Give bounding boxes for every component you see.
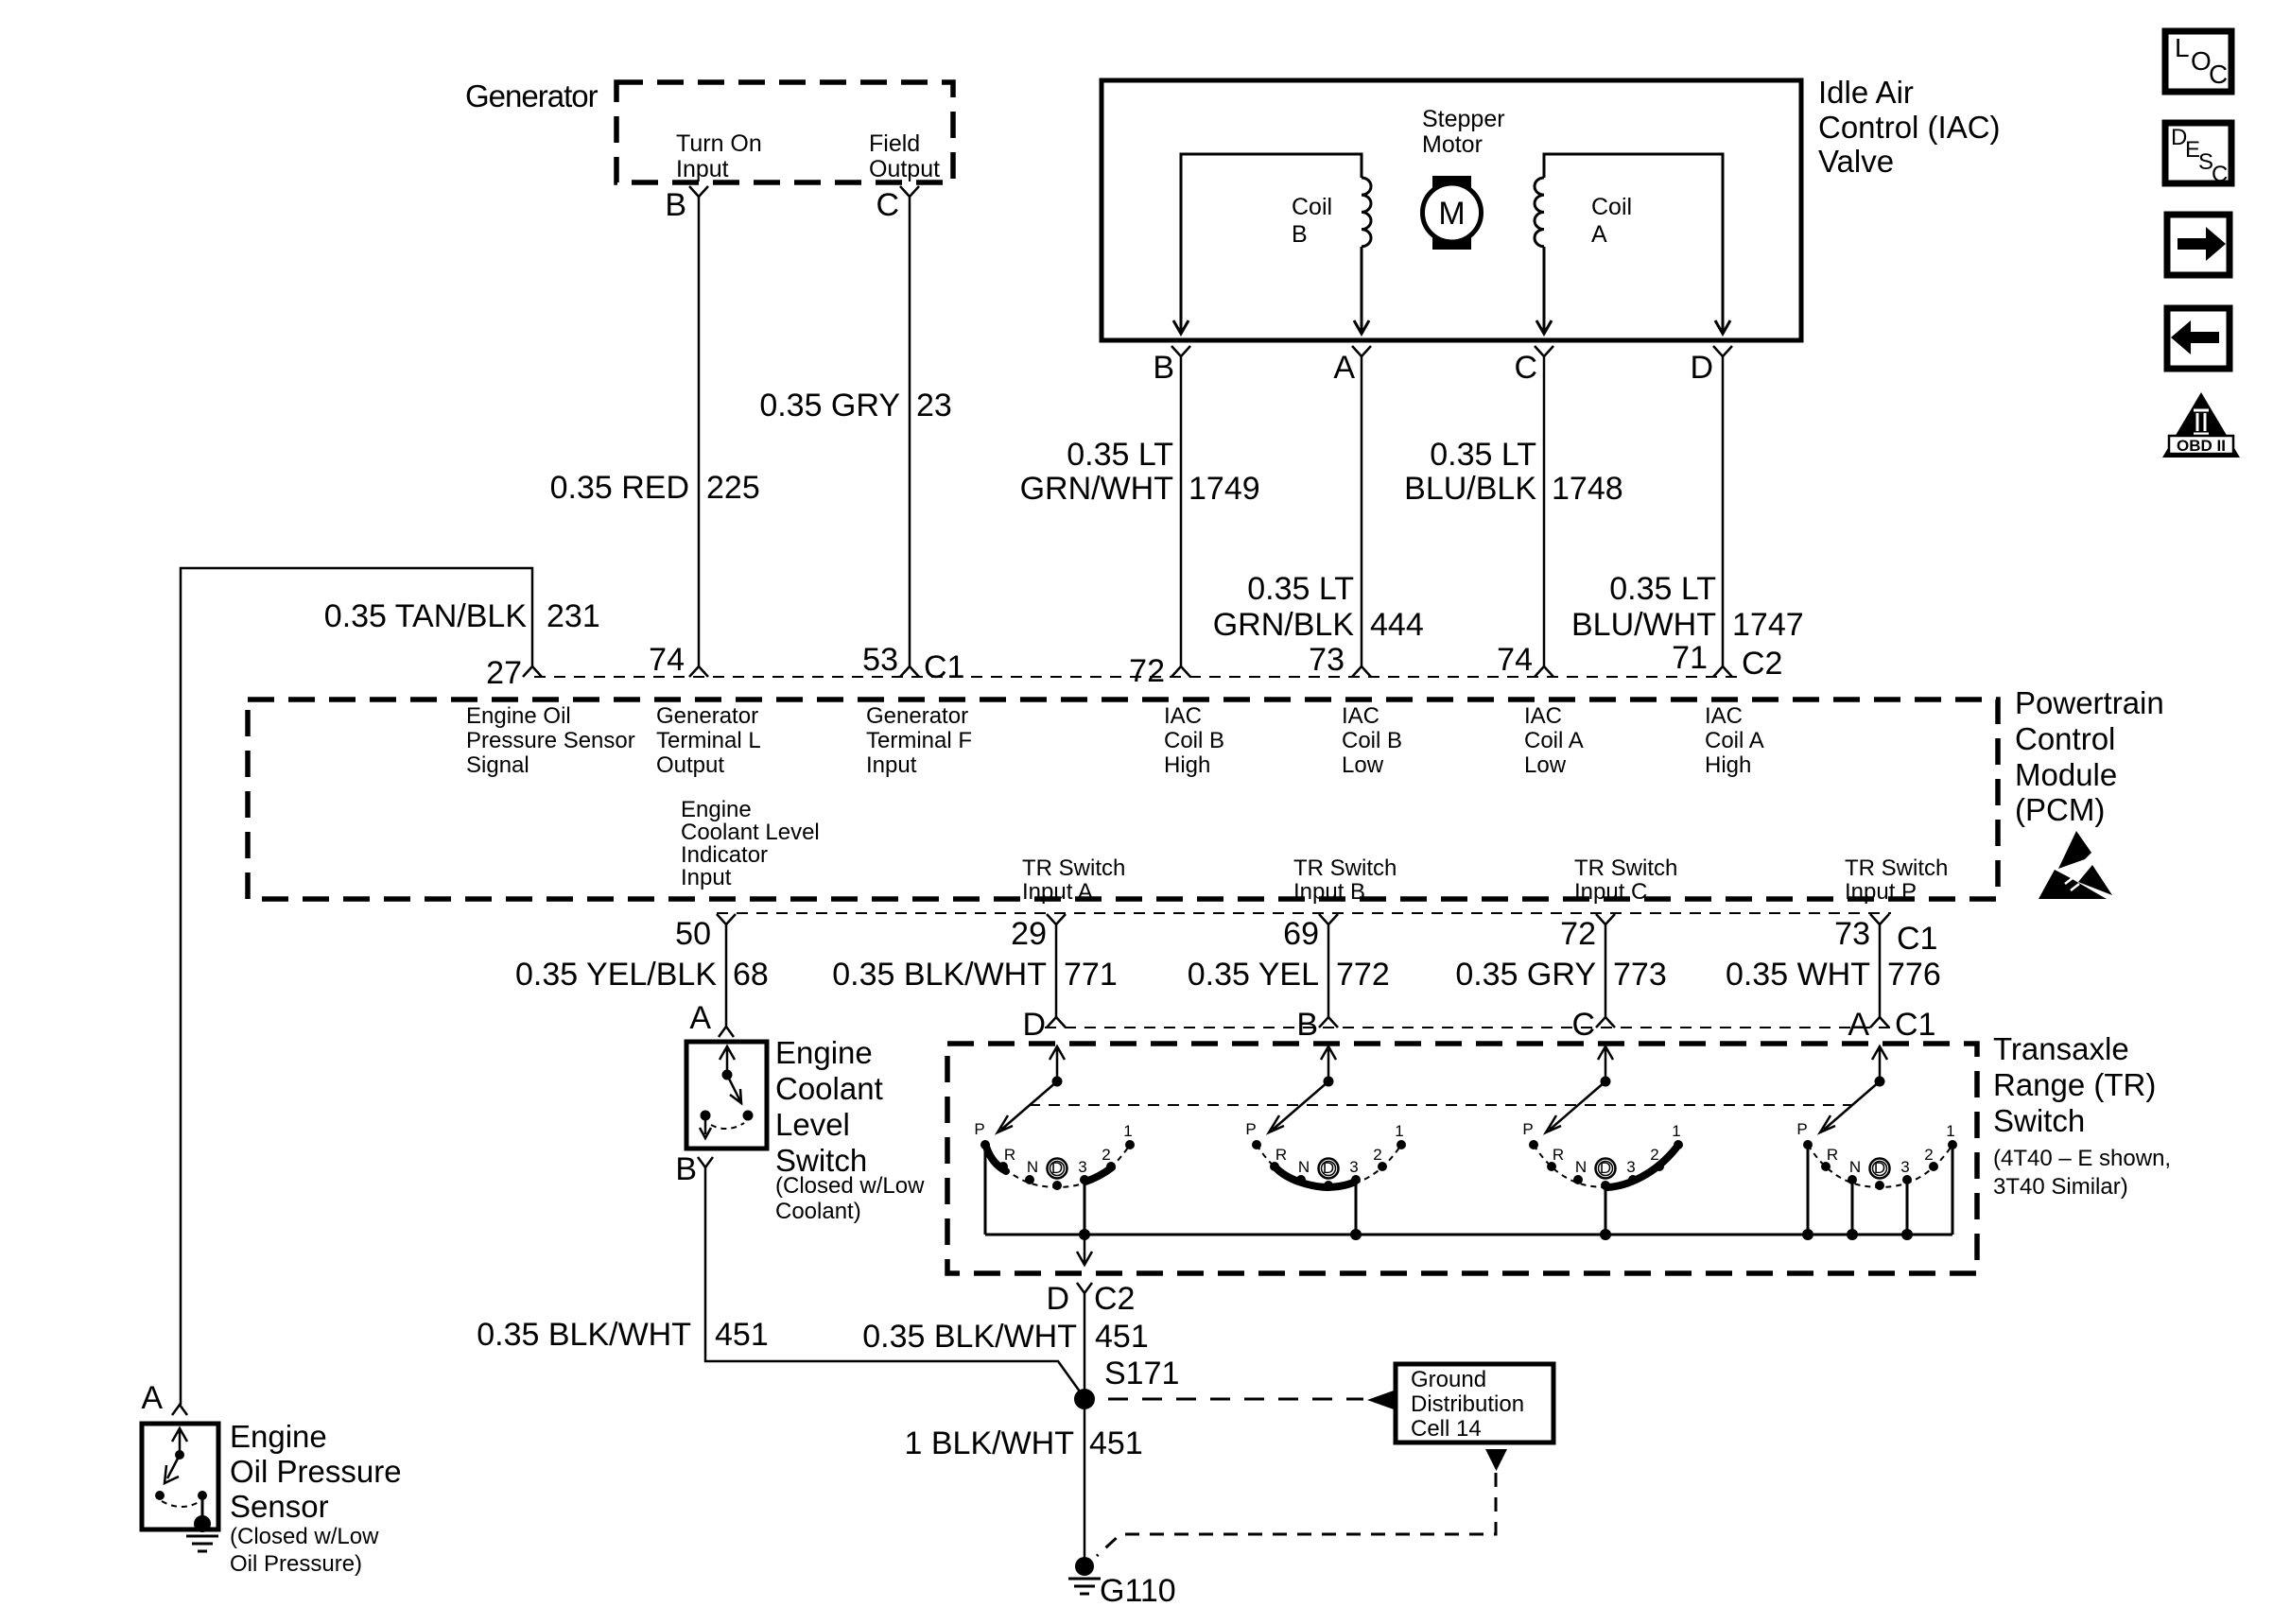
- svg-text:776: 776: [1887, 957, 1941, 993]
- svg-text:Input: Input: [681, 865, 732, 890]
- svg-text:Valve: Valve: [1818, 144, 1894, 179]
- connector fork pin D: [1047, 1017, 1066, 1028]
- svg-text:(PCM): (PCM): [2015, 792, 2105, 827]
- oil sensor contact dot left: [155, 1491, 165, 1500]
- svg-text:1: 1: [1946, 1122, 1954, 1140]
- svg-text:2: 2: [1650, 1146, 1658, 1164]
- connector fork at generator pin C: [900, 186, 919, 197]
- connector fork pin 74: [689, 666, 708, 677]
- svg-text:A: A: [1848, 1007, 1869, 1043]
- svg-text:B: B: [675, 1151, 697, 1187]
- svg-text:C: C: [2212, 162, 2228, 187]
- svg-text:3: 3: [1900, 1158, 1909, 1176]
- svg-text:0.35 GRY: 0.35 GRY: [1455, 957, 1596, 993]
- stepper motor M symbol: [1423, 176, 1482, 250]
- svg-text:Coil B: Coil B: [1164, 728, 1224, 753]
- svg-text:0.35 YEL: 0.35 YEL: [1188, 957, 1319, 993]
- connector fork coolant pin A: [719, 1027, 734, 1037]
- svg-text:R: R: [1004, 1146, 1015, 1164]
- svg-text:Turn On: Turn On: [676, 130, 762, 157]
- connector fork IAC pin B: [1171, 346, 1190, 356]
- svg-text:R: R: [1553, 1146, 1564, 1164]
- svg-text:TR Switch: TR Switch: [1022, 855, 1125, 881]
- connector fork pin B (TR): [1319, 1017, 1338, 1028]
- dashed reference from cell 14 to G110: [1097, 1473, 1496, 1556]
- svg-text:Coil: Coil: [1292, 194, 1332, 220]
- TR connector line (bottom of harness row): [1045, 1027, 1891, 1028]
- svg-text:72: 72: [1560, 916, 1596, 952]
- svg-text:772: 772: [1336, 957, 1390, 993]
- svg-text:1748: 1748: [1552, 471, 1623, 507]
- svg-text:(Closed w/Low: (Closed w/Low: [775, 1173, 925, 1199]
- coil B circuit (left inner loop): [1181, 154, 1362, 331]
- svg-text:N: N: [1298, 1158, 1310, 1176]
- svg-text:D: D: [1046, 1281, 1069, 1317]
- wire 444: [1361, 356, 1363, 666]
- OBD II icon: [2162, 392, 2240, 458]
- transaxle range switch dashed box: [947, 1044, 1977, 1273]
- svg-text:Input B: Input B: [1293, 879, 1365, 905]
- connector fork IAC pin C: [1535, 346, 1553, 356]
- svg-text:Powertrain: Powertrain: [2015, 685, 2164, 720]
- connector fork pin A (TR): [1870, 1017, 1889, 1028]
- svg-text:3T40 Similar): 3T40 Similar): [1993, 1174, 2128, 1200]
- svg-text:Module: Module: [2015, 757, 2117, 792]
- svg-text:29: 29: [1011, 916, 1047, 952]
- svg-text:Coil B: Coil B: [1342, 728, 1402, 753]
- svg-text:B: B: [1292, 221, 1308, 248]
- svg-text:Generator: Generator: [656, 703, 758, 729]
- wire 451 from coolant switch: [705, 1167, 1084, 1398]
- svg-text:Output: Output: [869, 156, 940, 182]
- wire 1747: [1722, 356, 1725, 666]
- wire 68: [725, 924, 728, 1027]
- coolant switch dashed travel arc: [711, 1123, 744, 1129]
- coil A circuit (right inner loop): [1544, 154, 1723, 331]
- svg-text:Input A: Input A: [1022, 879, 1093, 905]
- right arrow icon: [2167, 215, 2230, 275]
- svg-text:C1: C1: [1895, 1007, 1935, 1043]
- svg-text:0.35 BLK/WHT: 0.35 BLK/WHT: [832, 957, 1047, 993]
- svg-text:69: 69: [1283, 916, 1319, 952]
- svg-text:BLU/BLK: BLU/BLK: [1404, 471, 1536, 507]
- svg-text:Field: Field: [869, 130, 920, 157]
- svg-text:IAC: IAC: [1164, 703, 1202, 729]
- svg-text:A: A: [141, 1380, 163, 1416]
- coil B winding: [1362, 178, 1371, 247]
- connector fork pin 72: [1171, 666, 1190, 677]
- svg-text:74: 74: [649, 642, 685, 678]
- svg-text:Terminal F: Terminal F: [866, 728, 972, 753]
- svg-text:Cell 14: Cell 14: [1411, 1416, 1482, 1442]
- svg-text:53: 53: [862, 642, 898, 678]
- wire 773: [1605, 924, 1607, 1017]
- svg-text:Control (IAC): Control (IAC): [1818, 110, 2001, 145]
- connector fork pin 27: [523, 666, 542, 677]
- wire 225 from generator B: [698, 197, 701, 666]
- svg-text:Coolant: Coolant: [775, 1071, 883, 1106]
- svg-text:Coil: Coil: [1591, 194, 1632, 220]
- svg-text:R: R: [1275, 1146, 1287, 1164]
- connector fork pin 73 row2: [1870, 914, 1889, 924]
- wire 771: [1055, 924, 1058, 1017]
- svg-text:Pressure Sensor: Pressure Sensor: [466, 728, 635, 753]
- svg-text:1: 1: [1672, 1122, 1680, 1140]
- svg-text:1: 1: [1123, 1122, 1132, 1140]
- svg-text:Ground: Ground: [1411, 1367, 1486, 1392]
- svg-text:444: 444: [1370, 607, 1424, 643]
- svg-text:Terminal L: Terminal L: [656, 728, 761, 753]
- svg-text:Transaxle: Transaxle: [1993, 1031, 2129, 1066]
- svg-text:Coil A: Coil A: [1524, 728, 1584, 753]
- oil sensor pivot dot: [175, 1450, 184, 1460]
- svg-text:Low: Low: [1342, 752, 1384, 778]
- coolant switch pivot dot: [722, 1070, 733, 1080]
- svg-text:Engine: Engine: [775, 1035, 873, 1070]
- svg-text:72: 72: [1129, 653, 1165, 689]
- svg-text:Level: Level: [775, 1107, 850, 1142]
- svg-text:0.35 GRY: 0.35 GRY: [759, 388, 900, 423]
- svg-text:High: High: [1705, 752, 1751, 778]
- svg-text:GRN/WHT: GRN/WHT: [1020, 471, 1173, 507]
- svg-text:P: P: [974, 1120, 984, 1138]
- svg-text:IAC: IAC: [1705, 703, 1743, 729]
- LOC hotlink icon: [2165, 31, 2231, 92]
- connector fork oil sensor pin A: [172, 1405, 187, 1415]
- svg-text:(Closed w/Low: (Closed w/Low: [230, 1524, 379, 1549]
- TR switch common bus: [985, 1234, 1952, 1236]
- svg-text:1747: 1747: [1732, 607, 1804, 643]
- svg-text:B: B: [665, 187, 686, 223]
- wire 23 from generator C: [909, 197, 911, 666]
- svg-text:Motor: Motor: [1422, 131, 1483, 158]
- svg-text:Generator: Generator: [866, 703, 968, 729]
- wire 772: [1327, 924, 1330, 1017]
- TR switch rotor P (input P): [1796, 1046, 1957, 1235]
- svg-text:771: 771: [1064, 957, 1118, 993]
- wire 1748: [1543, 356, 1546, 666]
- svg-text:C1: C1: [924, 649, 964, 685]
- svg-text:Engine: Engine: [230, 1419, 327, 1454]
- svg-text:0.35 LT: 0.35 LT: [1067, 437, 1173, 473]
- svg-text:0.35 LT: 0.35 LT: [1247, 571, 1354, 607]
- svg-text:B: B: [1296, 1007, 1318, 1043]
- splice S171: [1074, 1389, 1095, 1409]
- left arrow icon: [2167, 308, 2230, 369]
- svg-text:50: 50: [675, 916, 711, 952]
- engine oil pressure sensor box: [142, 1424, 218, 1529]
- bus junction dots: [1079, 1229, 1090, 1240]
- svg-text:Output: Output: [656, 752, 724, 778]
- svg-text:L: L: [2175, 33, 2190, 62]
- svg-text:High: High: [1164, 752, 1210, 778]
- svg-text:Oil Pressure): Oil Pressure): [230, 1551, 362, 1577]
- svg-text:Engine: Engine: [681, 797, 752, 822]
- svg-text:OBD II: OBD II: [2177, 437, 2226, 455]
- coil A winding: [1535, 178, 1544, 247]
- svg-text:73: 73: [1834, 916, 1870, 952]
- svg-text:P: P: [1796, 1120, 1807, 1138]
- svg-text:3: 3: [1349, 1158, 1358, 1176]
- svg-text:1 BLK/WHT: 1 BLK/WHT: [905, 1425, 1074, 1461]
- connector fork pin 29: [1047, 914, 1066, 924]
- svg-text:Indicator: Indicator: [681, 842, 768, 868]
- svg-text:Coil A: Coil A: [1705, 728, 1764, 753]
- oil sensor contact arrow up: [172, 1428, 187, 1455]
- svg-text:0.35 LT: 0.35 LT: [1430, 437, 1536, 473]
- svg-text:C: C: [876, 187, 899, 223]
- connector fork pin 72 row2: [1596, 914, 1615, 924]
- svg-text:S171: S171: [1104, 1356, 1179, 1391]
- connector fork at generator pin B: [689, 186, 708, 197]
- svg-text:P: P: [1245, 1120, 1256, 1138]
- svg-text:C: C: [2209, 60, 2228, 89]
- svg-text:IAC: IAC: [1342, 703, 1379, 729]
- svg-text:0.35 BLK/WHT: 0.35 BLK/WHT: [862, 1319, 1077, 1355]
- svg-text:N: N: [1027, 1158, 1038, 1176]
- TR ground output arrow: [1077, 1235, 1092, 1265]
- svg-text:Oil Pressure: Oil Pressure: [230, 1454, 402, 1489]
- connector fork pin C (TR): [1596, 1017, 1615, 1028]
- svg-text:N: N: [1575, 1158, 1587, 1176]
- svg-text:TR Switch: TR Switch: [1293, 855, 1397, 881]
- connector fork IAC pin A: [1352, 346, 1371, 356]
- ground G110: [1075, 1557, 1094, 1576]
- svg-text:0.35 LT: 0.35 LT: [1609, 571, 1716, 607]
- svg-text:A: A: [1333, 350, 1355, 386]
- connector fork coolant pin B: [698, 1157, 713, 1167]
- svg-text:2: 2: [1102, 1146, 1110, 1164]
- svg-text:451: 451: [1089, 1425, 1143, 1461]
- engine coolant level switch box: [686, 1042, 767, 1149]
- svg-text:N: N: [1849, 1158, 1861, 1176]
- svg-text:0.35 BLK/WHT: 0.35 BLK/WHT: [477, 1317, 691, 1353]
- svg-text:231: 231: [547, 598, 600, 634]
- svg-text:C1: C1: [1897, 921, 1937, 957]
- svg-text:Signal: Signal: [466, 752, 529, 778]
- PCM dashed box: [248, 700, 1998, 899]
- svg-text:C2: C2: [1742, 646, 1782, 682]
- svg-text:Input P: Input P: [1845, 879, 1917, 905]
- svg-text:451: 451: [715, 1317, 769, 1353]
- svg-text:A: A: [1591, 221, 1607, 248]
- svg-text:27: 27: [486, 655, 522, 691]
- DESC hotlink icon: [2165, 123, 2231, 187]
- svg-text:451: 451: [1095, 1319, 1149, 1355]
- IAC valve box: [1102, 80, 1801, 340]
- svg-text:1: 1: [1395, 1122, 1403, 1140]
- coolant switch contact arrow up: [720, 1046, 735, 1075]
- svg-text:M: M: [1438, 196, 1465, 232]
- svg-text:0.35 TAN/BLK: 0.35 TAN/BLK: [324, 598, 528, 634]
- connector fork pin 50: [717, 914, 736, 924]
- TR internal linkage dashed line: [1029, 1104, 1851, 1106]
- svg-text:D: D: [1022, 1007, 1046, 1043]
- svg-text:TR Switch: TR Switch: [1574, 855, 1677, 881]
- svg-text:Generator: Generator: [465, 78, 599, 113]
- svg-text:2: 2: [1373, 1146, 1381, 1164]
- svg-text:Coolant Level: Coolant Level: [681, 820, 820, 845]
- oil sensor wiper arm: [165, 1455, 180, 1483]
- wire 1749: [1180, 356, 1183, 666]
- svg-text:773: 773: [1613, 957, 1667, 993]
- svg-text:3: 3: [1626, 1158, 1635, 1176]
- ground distribution down arrow: [1485, 1449, 1507, 1471]
- svg-text:B: B: [1153, 350, 1174, 386]
- connector fork pin 71: [1713, 666, 1732, 677]
- ESD sensitive symbol: [2039, 831, 2112, 899]
- svg-text:3: 3: [1078, 1158, 1086, 1176]
- svg-text:C: C: [1571, 1007, 1595, 1043]
- svg-text:73: 73: [1309, 642, 1345, 678]
- svg-text:R: R: [1827, 1146, 1838, 1164]
- ground distribution cell 14 box: [1396, 1364, 1553, 1443]
- svg-text:P: P: [1522, 1120, 1533, 1138]
- svg-text:Stepper: Stepper: [1422, 106, 1505, 132]
- svg-text:Input: Input: [866, 752, 917, 778]
- TR switch rotor A (input A): [974, 1046, 1135, 1235]
- engine oil pressure sensor feed wire (left): [181, 568, 532, 1405]
- svg-text:TR Switch: TR Switch: [1845, 855, 1948, 881]
- connector fork pin 69: [1319, 914, 1338, 924]
- svg-text:Control: Control: [2015, 721, 2115, 756]
- connector fork IAC pin D: [1713, 346, 1732, 356]
- PCM connector line C1/C2 (row 1): [534, 676, 1744, 678]
- coolant switch contact dot left: [701, 1111, 711, 1121]
- svg-text:D: D: [1690, 350, 1713, 386]
- wire 776: [1879, 924, 1882, 1017]
- svg-text:Sensor: Sensor: [230, 1489, 329, 1524]
- wire 451 to ground: [1084, 1293, 1086, 1564]
- connector fork pin 74b: [1535, 666, 1553, 677]
- svg-text:2: 2: [1924, 1146, 1933, 1164]
- connector fork TR pin D: [1077, 1283, 1092, 1293]
- svg-text:23: 23: [916, 388, 952, 423]
- svg-text:C2: C2: [1094, 1281, 1135, 1317]
- svg-text:0.35 RED: 0.35 RED: [550, 470, 689, 506]
- oil sensor dashed travel arc: [162, 1501, 200, 1507]
- TR switch rotor C (input C): [1522, 1046, 1683, 1235]
- svg-text:Coolant): Coolant): [775, 1199, 861, 1224]
- svg-text:Input: Input: [676, 156, 729, 182]
- TR switch rotor B (input B): [1245, 1046, 1406, 1235]
- svg-text:G110: G110: [1100, 1573, 1176, 1609]
- svg-text:71: 71: [1672, 640, 1708, 676]
- svg-text:Input C: Input C: [1574, 879, 1647, 905]
- oil sensor case ground: [186, 1536, 218, 1551]
- dashed reference to ground distribution: [1108, 1398, 1363, 1401]
- connector fork pin 53: [900, 666, 919, 677]
- svg-text:74: 74: [1497, 642, 1533, 678]
- svg-text:GRN/BLK: GRN/BLK: [1213, 607, 1355, 643]
- svg-text:Range (TR): Range (TR): [1993, 1067, 2156, 1102]
- PCM connector line C1 (row 2): [717, 912, 1891, 914]
- coolant switch wiper arm: [727, 1075, 741, 1103]
- arrowheads at IAC pins inside box: [1173, 320, 1189, 334]
- svg-text:Engine Oil: Engine Oil: [466, 703, 571, 729]
- svg-text:Switch: Switch: [1993, 1103, 2085, 1138]
- svg-text:0.35 YEL/BLK: 0.35 YEL/BLK: [515, 957, 717, 993]
- oil sensor contact dot right: [198, 1491, 207, 1500]
- svg-text:Distribution: Distribution: [1411, 1391, 1524, 1417]
- svg-text:0.35 WHT: 0.35 WHT: [1726, 957, 1870, 993]
- svg-text:1749: 1749: [1189, 471, 1260, 507]
- svg-text:Low: Low: [1524, 752, 1567, 778]
- connector fork pin 73: [1352, 666, 1371, 677]
- generator dashed box: [616, 82, 953, 182]
- svg-text:(4T40 – E shown,: (4T40 – E shown,: [1993, 1146, 2171, 1171]
- svg-text:BLU/WHT: BLU/WHT: [1571, 607, 1716, 643]
- coolant switch contact dot right: [743, 1111, 754, 1121]
- svg-text:A: A: [689, 1000, 711, 1036]
- svg-text:C: C: [1514, 350, 1537, 386]
- svg-text:225: 225: [706, 470, 760, 506]
- svg-text:IAC: IAC: [1524, 703, 1562, 729]
- oil sensor ground stem: [201, 1495, 204, 1518]
- coolant switch float arrow down: [700, 1120, 711, 1138]
- svg-text:Idle Air: Idle Air: [1818, 75, 1914, 110]
- svg-text:68: 68: [733, 957, 769, 993]
